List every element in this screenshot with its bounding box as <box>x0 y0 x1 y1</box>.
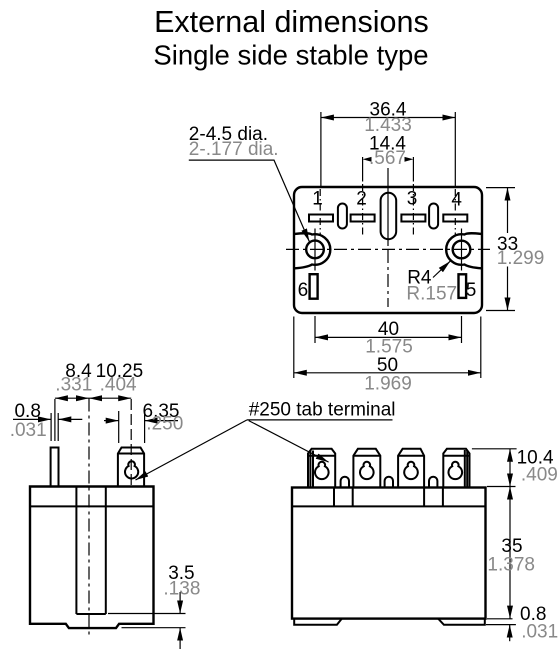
svg-text:#250 tab terminal: #250 tab terminal <box>249 400 396 421</box>
svg-text:.138: .138 <box>163 579 200 600</box>
svg-text:.404: .404 <box>100 375 137 396</box>
svg-text:Single side stable type: Single side stable type <box>153 40 428 71</box>
svg-text:1.378: 1.378 <box>487 555 535 576</box>
svg-text:2: 2 <box>356 189 367 210</box>
svg-text:.331: .331 <box>55 375 92 396</box>
svg-text:4: 4 <box>451 190 462 211</box>
svg-text:.567: .567 <box>369 148 406 169</box>
svg-text:6: 6 <box>298 280 309 301</box>
svg-text:R.157: R.157 <box>406 283 457 304</box>
svg-text:5: 5 <box>466 280 477 301</box>
svg-text:.250: .250 <box>146 413 183 434</box>
svg-text:.031: .031 <box>10 420 47 441</box>
svg-text:3: 3 <box>407 189 418 210</box>
svg-text:2-.177 dia.: 2-.177 dia. <box>189 139 279 160</box>
svg-text:.031: .031 <box>521 621 558 642</box>
svg-text:1: 1 <box>312 189 323 210</box>
svg-text:1.969: 1.969 <box>364 373 412 394</box>
svg-text:.409: .409 <box>521 464 558 485</box>
svg-text:0.8: 0.8 <box>14 401 40 422</box>
svg-text:1.299: 1.299 <box>497 248 545 269</box>
svg-text:External dimensions: External dimensions <box>154 5 429 39</box>
